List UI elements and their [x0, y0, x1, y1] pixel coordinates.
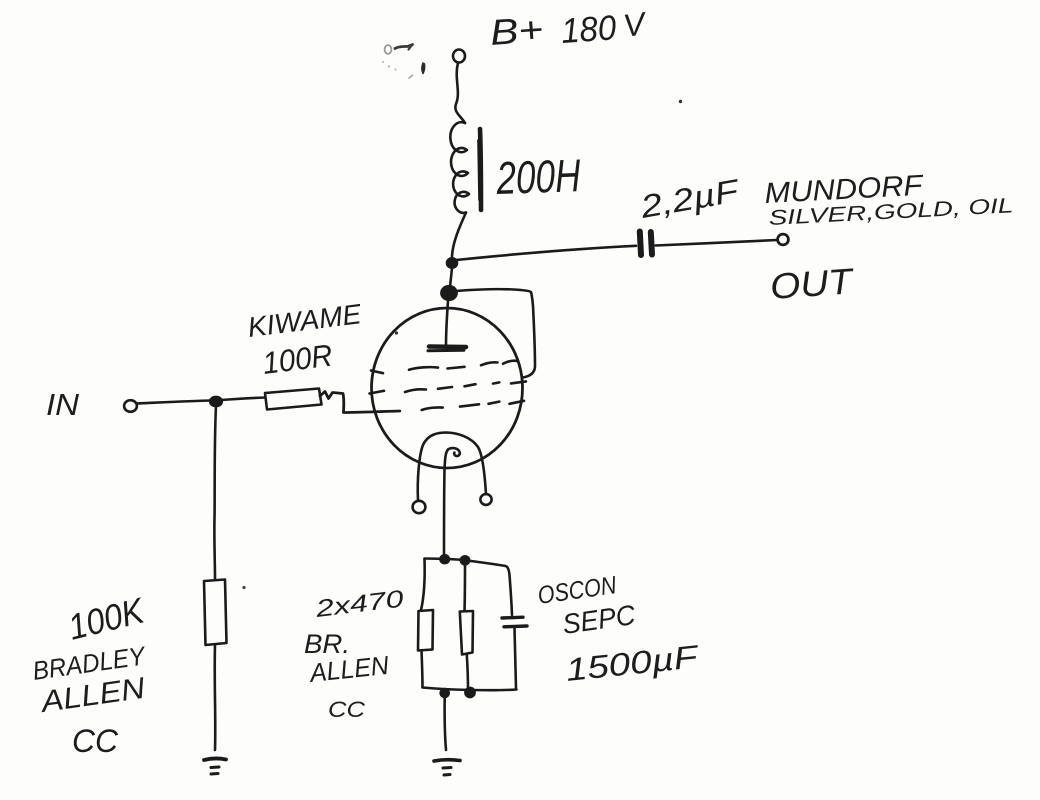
pencil smudge — [382, 45, 425, 79]
svg-text:IN: IN — [46, 387, 80, 422]
resistor R 100K grid leak — [204, 580, 227, 646]
wire bottom rail to ground — [445, 697, 446, 750]
wire grid resistor to tube grid — [320, 392, 400, 413]
wire capacitor to OUT terminal — [656, 240, 778, 246]
terminal IN — [124, 400, 137, 412]
capacitor Ck 1500uF plates — [502, 616, 523, 620]
node cathode top left — [441, 555, 449, 563]
svg-text:CC: CC — [328, 697, 365, 722]
wire cap to bottom rail — [515, 628, 517, 688]
terminal OUT — [778, 234, 789, 245]
node cathode bottom left — [441, 689, 449, 697]
wire IN to node — [137, 401, 211, 404]
resistor grid stopper 100R — [265, 389, 322, 410]
wire cathode cap branch top — [466, 561, 512, 616]
ground left — [204, 758, 226, 774]
wire cathode top rail — [425, 559, 467, 561]
wire cathode lead down — [444, 450, 448, 557]
inductor core bar — [480, 129, 481, 210]
wire left cathode branch — [421, 559, 425, 610]
resistor Rk2 470 — [460, 611, 473, 655]
wire cathode bottom rail — [423, 688, 517, 691]
wire input node down to grid leak — [214, 405, 216, 579]
svg-text:200H: 200H — [495, 149, 582, 204]
node cathode top right — [461, 556, 469, 564]
wire plate node down — [450, 268, 452, 287]
tube pin right — [480, 494, 491, 505]
speck near resistor — [242, 586, 245, 589]
svg-text:B+: B+ — [489, 8, 545, 53]
tube cathode arch — [418, 433, 486, 501]
capacitor C 2.2uF plates — [640, 232, 641, 256]
svg-text:CC: CC — [72, 723, 119, 759]
svg-text:OUT: OUT — [769, 260, 857, 307]
tube plate bar — [429, 344, 466, 349]
wire choke to plate node — [452, 213, 466, 259]
tube grid dashes row 1 — [371, 361, 518, 373]
wire Rk2 to bottom rail — [467, 655, 468, 690]
speck mid — [679, 100, 682, 103]
tube cathode crook — [448, 448, 460, 456]
tube grid dashes row 3 — [422, 401, 524, 410]
wire middle cathode branch — [463, 562, 466, 611]
wire node to output capacitor — [456, 246, 636, 260]
tube grid dashes row 2 — [370, 381, 527, 393]
node input junction — [210, 397, 222, 406]
wire screen grid strap — [456, 289, 535, 377]
wire Rk1 to bottom rail — [422, 651, 423, 688]
inductor L 200H — [450, 122, 469, 213]
tube plate lead — [446, 301, 448, 346]
svg-text:180: 180 — [560, 8, 618, 51]
wire B+ terminal to choke — [455, 63, 465, 123]
node cathode bottom right — [465, 688, 474, 697]
resistor Rk1 470 — [418, 610, 433, 651]
node plate junction — [447, 258, 457, 267]
wire node to grid resistor — [221, 398, 265, 401]
tube pin left — [413, 501, 426, 513]
tube V1 envelope — [372, 308, 523, 468]
speck circle edge — [395, 331, 398, 334]
ground right — [434, 760, 460, 775]
wire grid leak to ground — [213, 645, 216, 750]
node plate blob — [441, 286, 456, 300]
terminal B+ — [453, 50, 465, 63]
